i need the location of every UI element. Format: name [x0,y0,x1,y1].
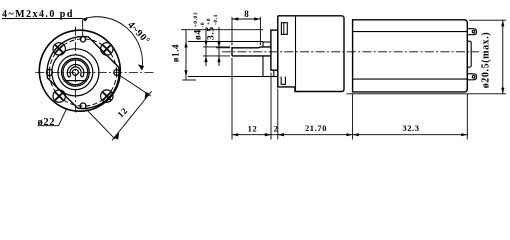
motor can body [353,20,468,92]
svg-text:3.5: 3.5 [207,26,217,40]
shaft boss bottom edge [263,76,278,78]
shaft retaining horseshoe outer arc [67,65,84,78]
bolt circle (dashed, pitch circle) [49,39,116,106]
motor can flat edge line upper [353,31,468,33]
dim 8: left extension (shaft tip up) [231,17,233,45]
dim ø4: extension top [203,46,230,48]
arrowhead at arc right end [138,64,144,70]
M2 tapped hole N [80,37,85,42]
gearbox crimp tab bottom [281,77,285,85]
rear end cap bump [467,41,471,67]
svg-text:+0.03: +0.03 [193,12,199,28]
tick through W hole [48,68,50,77]
gearbox case body [278,16,344,92]
svg-text:12: 12 [248,124,258,134]
dim ø1.4: dimension line [185,30,187,80]
dim ø20.5: extension top [469,19,506,21]
dim ø1.4: bottom stub extension [183,79,197,81]
dim ø20.5: dimension line [502,20,504,94]
dim ø4: dimension line [205,27,207,66]
ext motor face down [352,94,354,140]
motor can flat edge line lower [353,78,468,80]
bottom dimension chain: main line [232,134,469,136]
dim ø1.4: top tee extension [181,29,263,31]
ext shaft tip down [231,58,233,140]
bearing ring circle outer [58,55,93,90]
M2 tapped hole W [46,69,52,75]
horseshoe end cap left [69,76,71,78]
dimension 12: extension from E hole [119,75,151,96]
leader drop line to hole N [82,19,84,37]
shaft D-flat chord [65,80,86,82]
collar disc (ø14 x 2) [271,30,278,70]
svg-text:12: 12 [115,105,129,119]
svg-text:8: 8 [244,9,249,19]
output shaft: top line with flat step [232,46,271,49]
shaft axis centerline [222,51,479,53]
screw BL (phillips head) [53,90,65,102]
terminal hole upper [472,30,475,33]
dimension 12 (diagonal, bolt hole spacing): extension from S hole [85,108,115,139]
dim ø1.4: extension line lower [188,76,263,78]
output shaft: tip face [231,47,233,56]
dim ø1.4: extension line upper [188,41,263,43]
svg-text:2: 2 [274,124,279,134]
ext motor rear down [466,94,468,140]
dim 8: right extension (flat step up) [259,17,261,45]
dim ø4: arrow to shaft top [204,41,207,47]
shaft boss left face (upper segment) [262,42,264,77]
screw BR (phillips head) [101,90,113,102]
terminal hole lower [472,76,475,79]
terminal lug upper [467,29,476,35]
dim 3.5: extension top [216,47,230,49]
svg-text:4~M2x4.0 pd: 4~M2x4.0 pd [2,9,73,20]
ø22 text underline [38,125,59,127]
vertical centerline [74,27,76,113]
leader underline for M2 note [2,18,83,20]
angular dimension arc 4~90deg [83,17,142,70]
dim ø20.5: arrow up [501,20,504,26]
ext collar left down [270,73,272,140]
screw TR (phillips head) [101,43,113,55]
M2 tapped hole E [114,70,120,76]
screw TL (phillips head) [53,43,65,55]
dim ø20.5: extension bottom [347,93,507,95]
leader line for ø22 [59,108,67,126]
output shaft: bottom line [232,55,271,57]
gearbox plate/case seam [295,16,297,92]
dim 3.5: arrow to shaft bottom [217,56,220,62]
collar circle (front boss) [52,49,99,96]
dim ø1.4: arrow down [184,70,187,76]
svg-text:32.3: 32.3 [402,123,419,133]
dim ø1.4: arrow up [184,41,187,47]
shaft boss top edge [263,41,271,43]
horseshoe end cap right [80,75,82,77]
arrows bottom chain [232,133,238,136]
shaft retaining horseshoe inner arc [70,67,81,76]
M2 tapped hole S [80,103,86,109]
svg-text:ø22: ø22 [38,117,56,128]
gearbox crimp tab top [281,23,287,35]
gearbox case outer circle (ø22) [39,30,120,111]
dimension 12: arrow lower [114,133,119,140]
svg-text:ø4: ø4 [194,29,204,40]
shaft center small circle [72,69,78,75]
arrowhead at arc top end [83,18,88,22]
svg-text:21.70: 21.70 [305,123,327,133]
dim 8: left arrow [232,17,238,20]
label: 3.5 with tolerance [206,14,219,40]
bearing ring circle inner [63,60,88,85]
dimension 12: arrow upper [145,92,150,99]
dim 3.5: arrow to flat top [217,42,220,48]
ext gearbox face down [277,89,279,140]
svg-text:ø1.4: ø1.4 [171,44,181,62]
tick through E hole [116,68,118,77]
svg-text:+0: +0 [206,18,212,25]
motor can silhouette behind (circle with two chamfer flats) [47,36,119,108]
dim ø4: extension bottom [203,55,230,57]
terminal lug lower [467,74,476,80]
gearbox front plate [278,16,295,87]
gearbox crimp tab top inner line [283,23,285,35]
dim 8: dimension line [232,18,260,20]
dim 8: right arrow [254,17,260,20]
horizontal centerline [35,72,154,74]
bearing ring circle [62,58,90,86]
label: ø4 with tolerance [193,12,206,40]
svg-text:-0.1: -0.1 [213,14,219,25]
svg-text:ø20.5(max.): ø20.5(max.) [481,32,492,89]
dim 3.5: dimension line [218,27,220,66]
dim ø20.5: arrow down [501,88,504,94]
dim ø4: arrow to shaft bottom [204,56,207,62]
collar lower step piece [273,70,275,76]
dimension 12: dimension line [112,91,152,140]
